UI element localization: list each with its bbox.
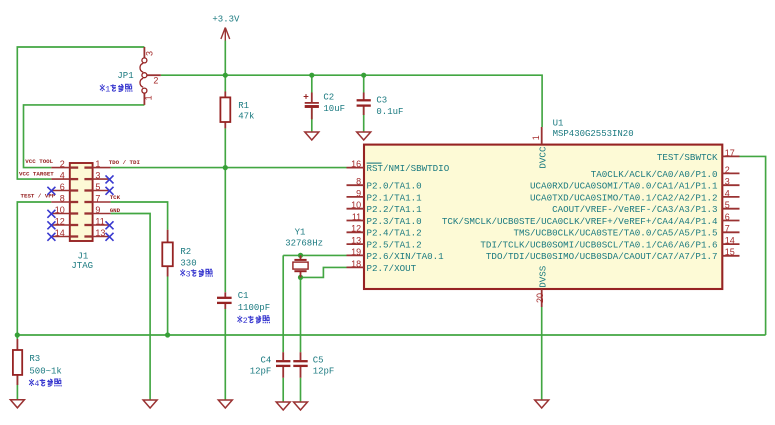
svg-text:TA0CLK/ACLK/CA0/A0/P1.0: TA0CLK/ACLK/CA0/A0/P1.0 <box>591 169 718 180</box>
svg-text:10: 10 <box>351 200 361 210</box>
crystal Y1 <box>300 255 302 259</box>
svg-text:16: 16 <box>351 159 361 169</box>
svg-text:JTAG: JTAG <box>71 261 93 271</box>
svg-text:GND: GND <box>110 207 121 214</box>
svg-text:17: 17 <box>725 148 735 158</box>
capacitor C2 polarized <box>311 93 313 103</box>
junction R3 / TEST net <box>15 332 20 337</box>
svg-text:2: 2 <box>153 75 158 85</box>
wire C1 bottom to ground <box>224 309 226 400</box>
svg-text:8: 8 <box>60 193 65 203</box>
svg-text:3: 3 <box>144 51 154 56</box>
svg-text:DVSS: DVSS <box>538 265 549 288</box>
IC U1 MSP430 body <box>364 145 722 289</box>
wire C4 bottom to ground <box>282 378 284 402</box>
svg-text:11: 11 <box>95 216 104 226</box>
wire C2 bottom to ground <box>311 108 313 132</box>
power +3.3V symbol arrow <box>224 28 226 41</box>
resistor R2 <box>167 230 169 243</box>
svg-text:TCK: TCK <box>110 194 121 201</box>
junction Y1 bottom XOUT <box>298 275 303 280</box>
ground C1 <box>218 400 232 408</box>
pins U1 stubs <box>347 167 365 169</box>
svg-text:47k: 47k <box>238 112 254 122</box>
ground C2 <box>305 132 319 140</box>
wire C2 top <box>311 75 313 92</box>
ground DVSS <box>535 400 549 408</box>
svg-text:R1: R1 <box>238 101 249 111</box>
note 4 (see note 4) <box>29 379 34 386</box>
svg-text:VCC TOOL: VCC TOOL <box>25 158 53 165</box>
svg-text:MSP430G2553IN20: MSP430G2553IN20 <box>553 129 634 139</box>
wire JP1 pin1 to J1 pin2 VCC TOOL <box>24 105 145 168</box>
svg-text:P2.5/TA1.2: P2.5/TA1.2 <box>367 240 422 251</box>
svg-text:C2: C2 <box>323 92 334 102</box>
wire C4 column <box>282 255 284 352</box>
svg-text:12pF: 12pF <box>313 366 335 376</box>
svg-text:18: 18 <box>351 259 361 269</box>
svg-text:C5: C5 <box>313 355 324 365</box>
svg-text:C4: C4 <box>260 355 271 365</box>
wire C1 top <box>224 168 226 293</box>
svg-text:2: 2 <box>243 316 248 326</box>
svg-text:R3: R3 <box>29 354 40 364</box>
wire DVSS to ground <box>541 307 543 400</box>
ground J1 GND pin <box>143 400 157 408</box>
svg-text:3: 3 <box>186 270 191 280</box>
svg-text:P2.4/TA1.2: P2.4/TA1.2 <box>367 228 422 239</box>
svg-text:4: 4 <box>34 379 39 389</box>
junction C3 top rail <box>361 73 366 78</box>
svg-text:TDO/TDI/UCB0SIMO/UCB0SDA/CAOUT: TDO/TDI/UCB0SIMO/UCB0SDA/CAOUT/CA7/A7/P1… <box>486 251 718 262</box>
wire Y1 bottom to C5 <box>300 277 302 352</box>
svg-text:11: 11 <box>352 212 361 222</box>
junction RST net R1/C1 <box>223 165 228 170</box>
svg-text:P2.0/TA1.0: P2.0/TA1.0 <box>367 181 422 192</box>
junction R2 bottom rail <box>165 332 170 337</box>
capacitor C4 <box>282 352 284 360</box>
svg-text:1: 1 <box>531 135 541 140</box>
svg-text:RST/NMI/SBWTDIO: RST/NMI/SBWTDIO <box>367 163 450 174</box>
svg-text:TEST/SBWTCK: TEST/SBWTCK <box>657 152 718 163</box>
wire C5 bottom to ground <box>300 378 302 402</box>
wire RST net J1 pin1 TDO/TDI to U1 pin16 <box>111 167 347 169</box>
svg-text:TMS/UCB0CLK/UCA0STE/TA0.0/CA5/: TMS/UCB0CLK/UCA0STE/TA0.0/CA5/A5/P1.5 <box>514 228 718 239</box>
resistor R1 <box>224 92 226 98</box>
svg-text:7: 7 <box>95 193 100 203</box>
junction +3.3V / R1 top rail <box>223 73 228 78</box>
svg-text:TCK/SMCLK/UCB0STE/UCA0CLK/VREF: TCK/SMCLK/UCB0STE/UCA0CLK/VREF+/VeREF+/C… <box>442 216 718 227</box>
svg-text:10: 10 <box>55 205 65 215</box>
svg-text:R2: R2 <box>180 247 191 257</box>
wire C3 top <box>363 75 365 92</box>
svg-text:TDI/TCLK/UCB0SOMI/UCB0SCL/TA0.: TDI/TCLK/UCB0SOMI/UCB0SCL/TA0.1/CA6/A6/P… <box>480 240 717 251</box>
wire J1 pin9 GND to ground <box>111 214 151 401</box>
svg-text:JP1: JP1 <box>117 71 133 81</box>
svg-text:1: 1 <box>144 95 154 100</box>
wire U1 pin19 XIN to Y1/C4 <box>283 254 346 256</box>
svg-text:20: 20 <box>535 293 545 303</box>
svg-text:U1: U1 <box>553 118 564 128</box>
wire U1 pin18 XOUT to Y1 bottom <box>301 267 347 277</box>
capacitor C5 <box>300 352 302 360</box>
junction C2 top rail <box>309 73 314 78</box>
svg-text:0.1uF: 0.1uF <box>376 107 403 117</box>
svg-text:1: 1 <box>105 85 110 95</box>
svg-text:C3: C3 <box>376 96 387 106</box>
wire +3.3V top rail to DVCC <box>161 75 542 127</box>
wire R1 bottom to RST net <box>224 128 226 167</box>
svg-text:9: 9 <box>95 205 100 215</box>
note 1 (see note 1) <box>100 84 105 91</box>
wire R1 top <box>224 75 226 91</box>
wire R2 bottom to rail <box>167 277 169 336</box>
svg-text:500~1k: 500~1k <box>29 366 61 376</box>
jumper JP1 <box>143 47 145 58</box>
connector J1 JTAG header <box>70 163 93 241</box>
svg-text:6: 6 <box>60 182 65 192</box>
svg-text:1: 1 <box>95 159 100 169</box>
svg-text:12: 12 <box>351 224 361 234</box>
wire J1 pin7 TCK to R2 <box>111 202 168 230</box>
wire JP1 pin3 to J1 pin4 VCC TARGET <box>17 47 144 179</box>
svg-text:12: 12 <box>55 216 65 226</box>
svg-text:3: 3 <box>95 170 100 180</box>
svg-text:P2.2/TA1.1: P2.2/TA1.1 <box>367 204 423 215</box>
svg-text:J1: J1 <box>78 252 89 262</box>
svg-text:3: 3 <box>725 177 730 187</box>
svg-text:32768Hz: 32768Hz <box>285 239 323 249</box>
svg-text:CAOUT/VREF-/VeREF-/CA3/A3/P1.3: CAOUT/VREF-/VeREF-/CA3/A3/P1.3 <box>552 204 717 215</box>
svg-text:+3.3V: +3.3V <box>212 14 240 24</box>
svg-text:P2.6/XIN/TA0.1: P2.6/XIN/TA0.1 <box>367 251 445 262</box>
svg-text:1100pF: 1100pF <box>238 303 270 313</box>
svg-text:TDO / TDI: TDO / TDI <box>109 159 141 166</box>
svg-text:2: 2 <box>725 165 730 175</box>
wire +3.3V stem <box>224 41 226 76</box>
ground C5 <box>294 402 308 410</box>
svg-text:DVCC: DVCC <box>538 146 549 169</box>
ground C4 <box>276 402 290 410</box>
ground C3 <box>357 132 371 140</box>
note 2 (see note 2) <box>238 316 243 323</box>
capacitor C1 <box>224 292 226 297</box>
wire U1 pin17 to right riser <box>740 156 766 335</box>
svg-text:Y1: Y1 <box>295 228 306 238</box>
svg-text:7: 7 <box>725 224 730 234</box>
overline RST <box>367 162 382 164</box>
svg-text:P2.3/TA1.0: P2.3/TA1.0 <box>367 216 422 227</box>
svg-text:UCA0RXD/UCA0SOMI/TA0.0/CA1/A1/: UCA0RXD/UCA0SOMI/TA0.0/CA1/A1/P1.1 <box>530 181 718 192</box>
wire R3 top <box>16 335 18 339</box>
svg-text:4: 4 <box>60 170 65 180</box>
svg-text:C1: C1 <box>238 291 249 301</box>
resistor R3 <box>16 339 18 350</box>
svg-text:14: 14 <box>725 236 735 246</box>
svg-text:6: 6 <box>725 212 730 222</box>
svg-text:P2.1/TA1.1: P2.1/TA1.1 <box>367 192 423 203</box>
svg-text:5: 5 <box>725 200 730 210</box>
wire R3 bottom to ground <box>16 375 18 400</box>
svg-text:13: 13 <box>95 228 105 238</box>
capacitor C3 <box>363 93 365 100</box>
note 3 (see note 3) <box>180 269 185 276</box>
svg-text:330: 330 <box>180 259 196 269</box>
wire J1 pin8 TEST/VPP to bottom rail <box>17 202 51 335</box>
no-connect X marks J1 <box>47 187 55 195</box>
wire bottom rail TEST/SBWTCK net <box>17 334 765 336</box>
svg-text:12pF: 12pF <box>250 366 272 376</box>
svg-text:14: 14 <box>55 228 65 238</box>
ground R3 <box>10 400 24 408</box>
svg-text:19: 19 <box>351 247 361 257</box>
svg-text:9: 9 <box>356 188 361 198</box>
svg-text:10uF: 10uF <box>323 104 345 114</box>
wire C3 bottom to ground <box>363 107 365 132</box>
svg-text:TEST / VPP: TEST / VPP <box>21 193 56 200</box>
svg-text:5: 5 <box>95 182 100 192</box>
svg-text:8: 8 <box>356 177 361 187</box>
svg-text:P2.7/XOUT: P2.7/XOUT <box>367 263 417 274</box>
junction Y1 top XIN <box>298 253 303 258</box>
svg-text:2: 2 <box>60 159 65 169</box>
svg-text:VCC TARGET: VCC TARGET <box>19 170 54 177</box>
svg-text:4: 4 <box>725 188 730 198</box>
svg-text:UCA0TXD/UCA0SIMO/TA0.1/CA2/A2/: UCA0TXD/UCA0SIMO/TA0.1/CA2/A2/P1.2 <box>530 192 717 203</box>
svg-text:13: 13 <box>351 236 361 246</box>
svg-text:15: 15 <box>725 247 735 257</box>
